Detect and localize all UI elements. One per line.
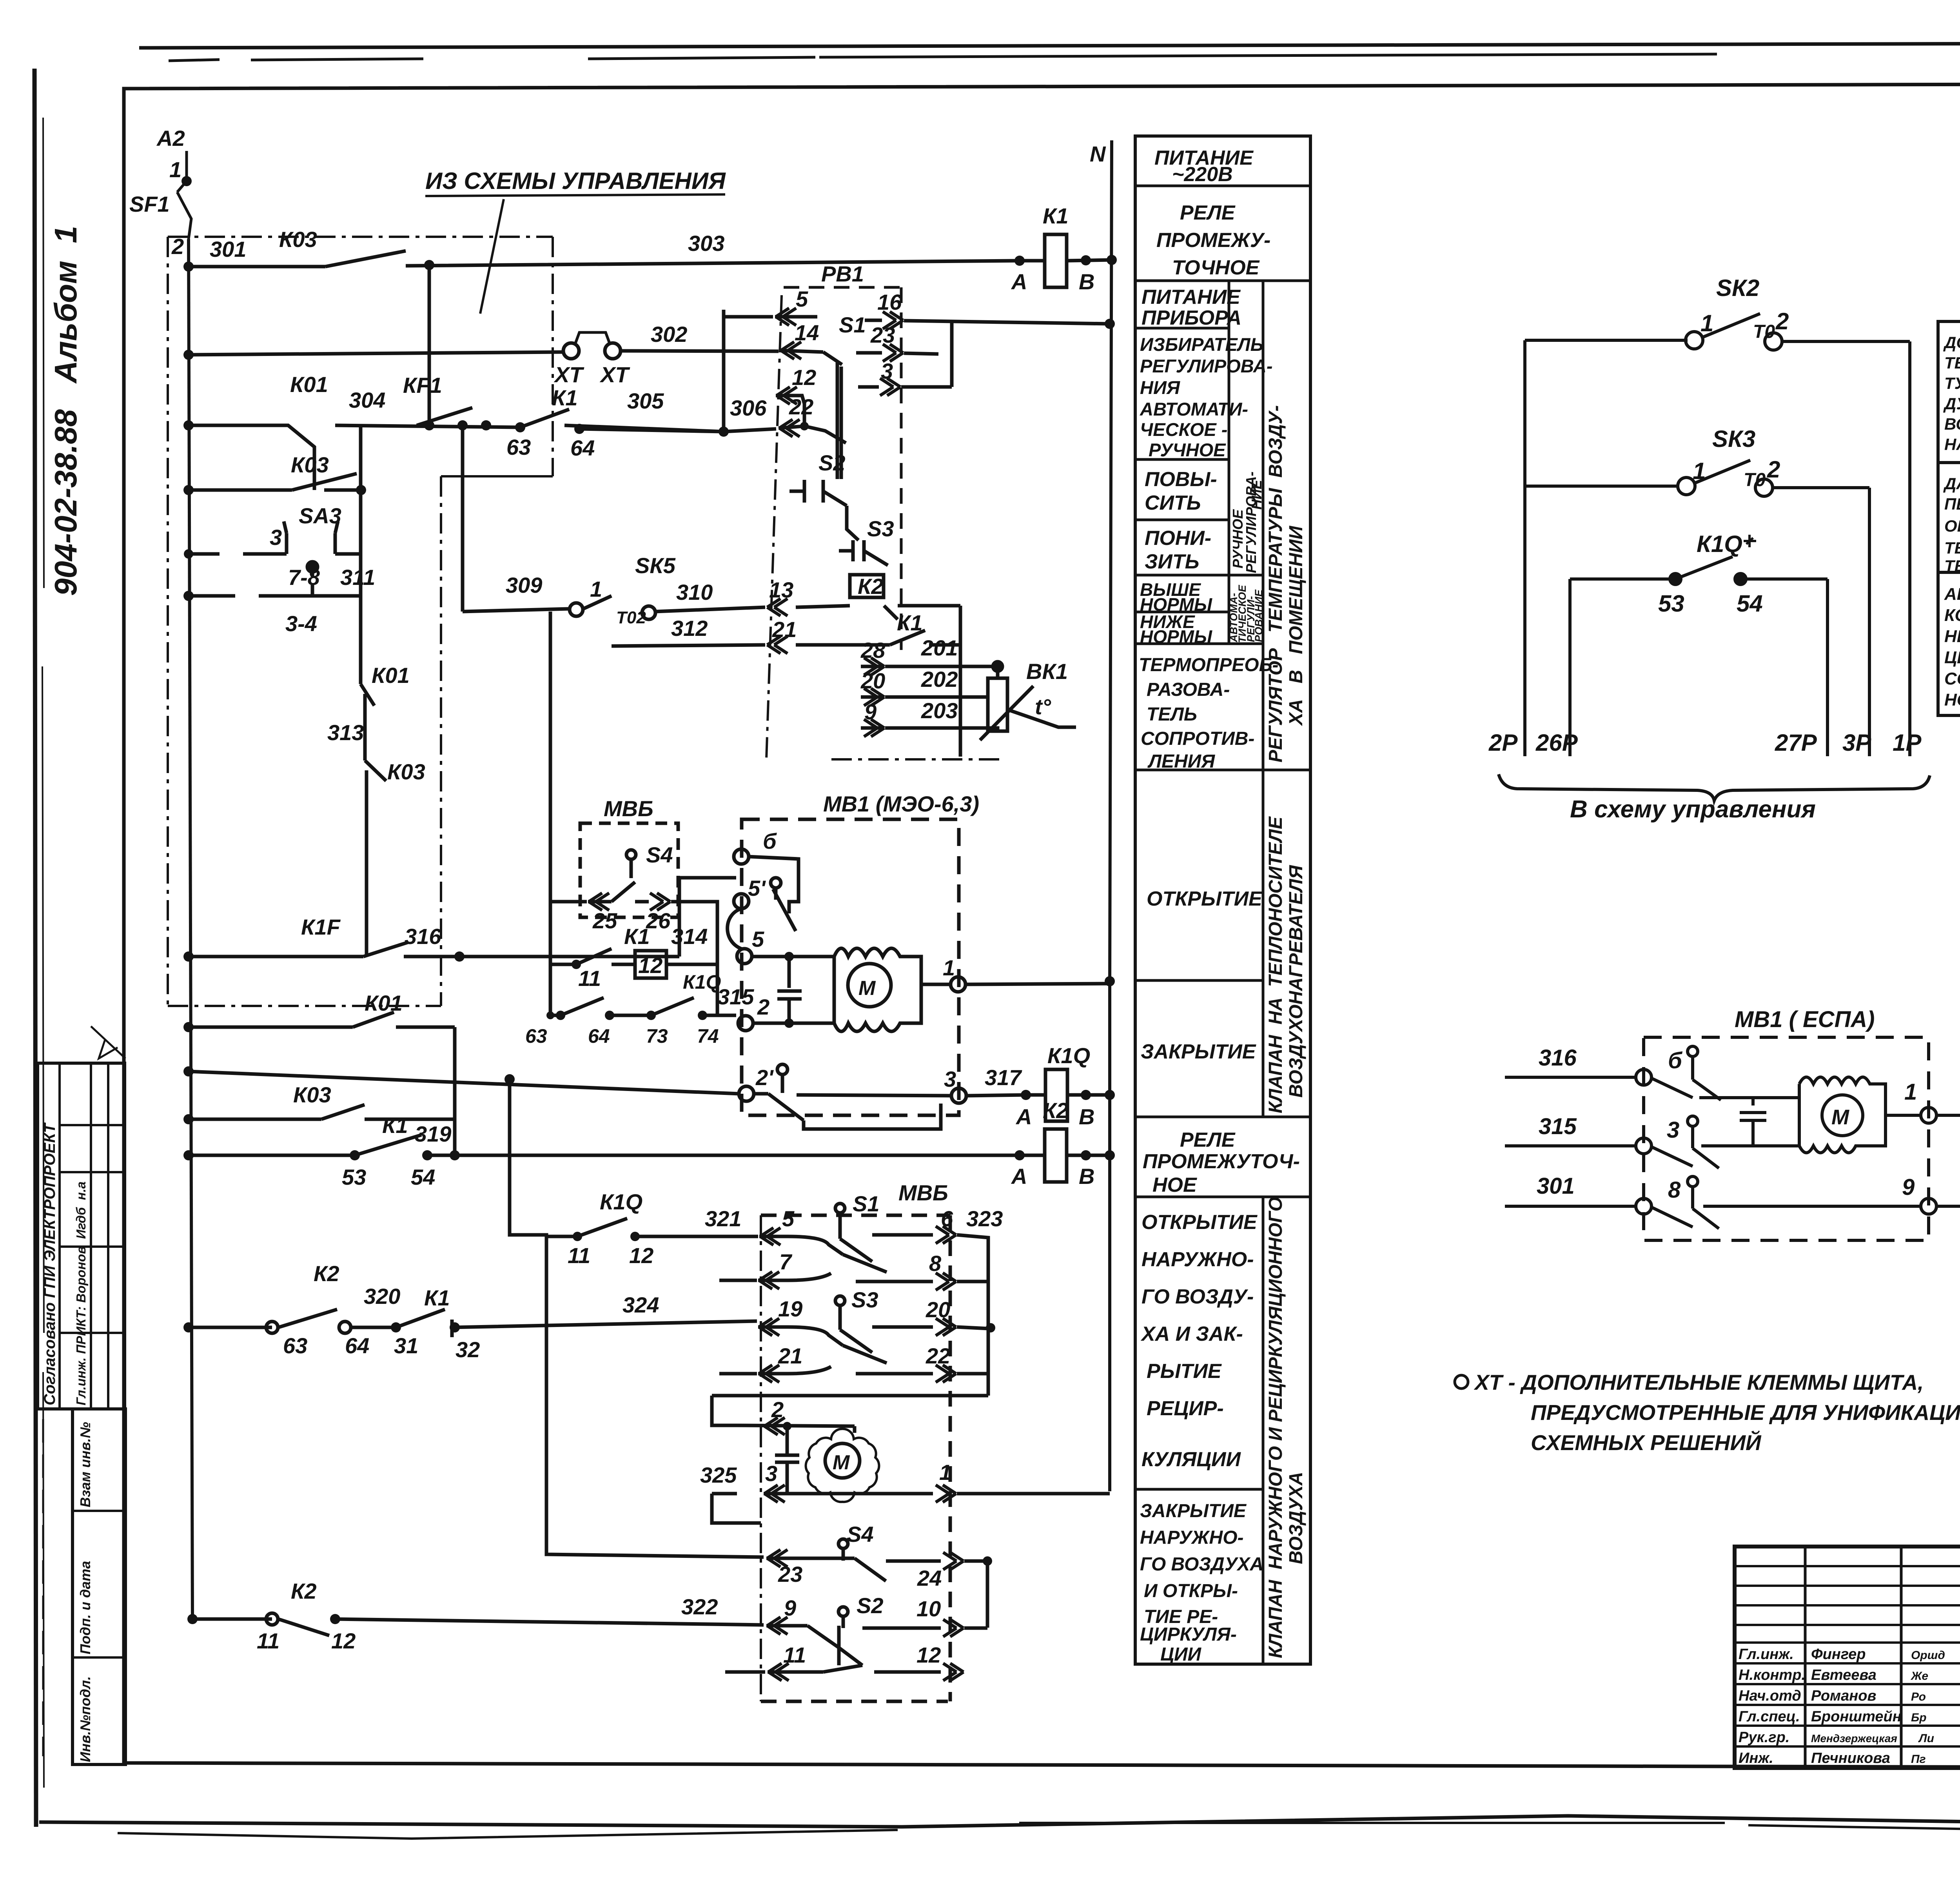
svg-text:ОБРАТНОГО: ОБРАТНОГО — [1944, 517, 1960, 535]
svg-text:10: 10 — [916, 1596, 941, 1621]
svg-text:3: 3 — [765, 1461, 777, 1486]
svg-text:К01: К01 — [365, 991, 403, 1015]
svg-text:6: 6 — [941, 1206, 953, 1231]
svg-text:ТЕЛЯ: ТЕЛЯ — [1944, 557, 1960, 575]
svg-text:201: 201 — [921, 635, 958, 660]
svg-text:3Р: 3Р — [1842, 730, 1871, 756]
svg-text:32: 32 — [456, 1337, 480, 1362]
svg-text:9: 9 — [1902, 1174, 1915, 1200]
svg-text:ЧЕСКОЕ -: ЧЕСКОЕ - — [1140, 419, 1227, 440]
svg-text:8: 8 — [1668, 1177, 1681, 1203]
svg-text:3: 3 — [881, 359, 893, 383]
svg-text:5: 5 — [752, 927, 764, 951]
svg-text:Романов: Романов — [1811, 1688, 1876, 1704]
svg-text:11: 11 — [257, 1628, 279, 1653]
svg-text:301: 301 — [210, 237, 246, 261]
svg-text:315: 315 — [717, 984, 754, 1009]
svg-text:ХТ - ДОПОЛНИТЕЛЬНЫЕ КЛЕММЫ Щ: ХТ - ДОПОЛНИТЕЛЬНЫЕ КЛЕММЫ ЩИТА, — [1474, 1370, 1924, 1394]
svg-text:315: 315 — [1539, 1114, 1577, 1139]
svg-text:S1: S1 — [853, 1191, 880, 1216]
svg-text:НОЕ: НОЕ — [1152, 1174, 1197, 1196]
svg-text:1: 1 — [943, 955, 955, 980]
svg-text:22: 22 — [789, 394, 813, 419]
svg-text:A2: A2 — [156, 126, 185, 151]
svg-text:СХЕМНЫХ РЕШЕНИЙ: СХЕМНЫХ РЕШЕНИЙ — [1531, 1430, 1762, 1455]
svg-text:В: В — [1079, 1104, 1094, 1129]
svg-text:317: 317 — [985, 1065, 1022, 1090]
svg-text:322: 322 — [681, 1594, 718, 1619]
svg-text:ХА В ПОМЕЩЕНИИ: ХА В ПОМЕЩЕНИИ — [1286, 525, 1307, 726]
svg-text:53: 53 — [1658, 590, 1684, 617]
svg-text:ПРЕДУСМОТРЕННЫЕ ДЛЯ УНИФИКАЦ: ПРЕДУСМОТРЕННЫЕ ДЛЯ УНИФИКАЦИИ — [1531, 1400, 1960, 1425]
svg-text:Гл.инж.: Гл.инж. — [1739, 1646, 1794, 1663]
svg-text:НОСИТЕЛЯ: НОСИТЕЛЯ — [1944, 690, 1960, 710]
svg-text:ПЕРАТУРЫ: ПЕРАТУРЫ — [1944, 495, 1960, 513]
svg-text:К01: К01 — [290, 372, 328, 397]
svg-text:ХТ: ХТ — [599, 362, 630, 387]
svg-text:НИЯ: НИЯ — [1140, 377, 1181, 398]
svg-text:К1F: К1F — [301, 915, 341, 939]
svg-text:27Р: 27Р — [1775, 730, 1817, 756]
svg-text:Евтеева: Евтеева — [1811, 1667, 1877, 1683]
svg-text:3-4: 3-4 — [285, 611, 317, 636]
svg-text:324: 324 — [622, 1292, 659, 1317]
svg-text:Печникова: Печникова — [1811, 1750, 1890, 1766]
svg-text:24: 24 — [917, 1566, 942, 1590]
svg-text:23: 23 — [870, 323, 895, 347]
svg-text:ПРОМЕЖУ-: ПРОМЕЖУ- — [1156, 229, 1270, 252]
svg-text:19: 19 — [778, 1296, 802, 1321]
svg-text:5': 5' — [748, 876, 766, 900]
svg-text:К1: К1 — [424, 1285, 450, 1310]
svg-text:ТЕМПЕРА-: ТЕМПЕРА- — [1944, 354, 1960, 372]
svg-text:К1Q: К1Q — [1047, 1043, 1090, 1068]
svg-text:8: 8 — [929, 1251, 942, 1276]
svg-text:1: 1 — [1700, 310, 1713, 336]
svg-text:НИЕ: НИЕ — [1249, 479, 1265, 510]
svg-text:НАГРЕВАТЕЛ.: НАГРЕВАТЕЛ. — [1944, 435, 1960, 454]
svg-text:ПОВЫ-: ПОВЫ- — [1145, 468, 1217, 491]
svg-text:2: 2 — [771, 1397, 784, 1422]
svg-text:2': 2' — [755, 1065, 774, 1090]
svg-text:ЗИТЬ: ЗИТЬ — [1145, 550, 1199, 573]
svg-text:РЫТИЕ: РЫТИЕ — [1147, 1360, 1222, 1383]
svg-text:М: М — [833, 1451, 850, 1474]
svg-text:КЛАПАН НАРУЖНОГО И РЕЦИРКУЛЯЦ: КЛАПАН НАРУЖНОГО И РЕЦИРКУЛЯЦИОННОГО — [1265, 1197, 1286, 1658]
svg-text:К1: К1 — [624, 924, 650, 949]
svg-text:ЦИРКУЛЯ-: ЦИРКУЛЯ- — [1140, 1624, 1237, 1645]
svg-text:К1Q: К1Q — [600, 1189, 642, 1214]
svg-text:~220В: ~220В — [1172, 163, 1233, 186]
svg-text:К03: К03 — [279, 227, 317, 252]
svg-text:SК2: SК2 — [1716, 275, 1759, 301]
svg-text:ВОЗДУХО-: ВОЗДУХО- — [1944, 415, 1960, 433]
svg-text:26Р: 26Р — [1535, 730, 1578, 756]
svg-text:305: 305 — [627, 388, 664, 413]
svg-text:РЕГУЛИРОВА-: РЕГУЛИРОВА- — [1140, 356, 1273, 376]
svg-text:64: 64 — [345, 1333, 369, 1358]
svg-text:63: 63 — [506, 435, 531, 459]
svg-text:РАЗОВА-: РАЗОВА- — [1147, 679, 1230, 700]
svg-text:Же: Же — [1910, 1670, 1928, 1683]
svg-text:ТЕПЛОНОСИ-: ТЕПЛОНОСИ- — [1944, 539, 1960, 557]
svg-text:S4: S4 — [847, 1522, 874, 1547]
svg-text:ИЗБИРАТЕЛЬ: ИЗБИРАТЕЛЬ — [1140, 334, 1263, 355]
svg-text:НИЕ ЦИРКУЛЯ-: НИЕ ЦИРКУЛЯ- — [1944, 627, 1960, 646]
svg-text:НАРУЖНО-: НАРУЖНО- — [1140, 1527, 1244, 1548]
svg-text:МВ1 (МЭО-6,3): МВ1 (МЭО-6,3) — [823, 791, 979, 816]
svg-text:5: 5 — [796, 287, 808, 311]
svg-text:12: 12 — [792, 365, 816, 390]
svg-text:Т0: Т0 — [1744, 470, 1766, 490]
svg-text:Мендзержецкая: Мендзержецкая — [1811, 1732, 1897, 1744]
svg-text:ВК1: ВК1 — [1026, 659, 1068, 684]
svg-text:б: б — [763, 829, 777, 853]
svg-text:Пг: Пг — [1911, 1753, 1926, 1766]
svg-text:ПРОМЕЖУТОЧ-: ПРОМЕЖУТОЧ- — [1143, 1150, 1300, 1173]
svg-text:12: 12 — [916, 1643, 941, 1667]
svg-text:К01: К01 — [372, 663, 410, 688]
svg-text:ДАТЧИК ТЕМ-: ДАТЧИК ТЕМ- — [1943, 474, 1960, 493]
svg-text:К2: К2 — [314, 1261, 339, 1286]
svg-text:321: 321 — [705, 1206, 741, 1231]
svg-text:306: 306 — [730, 396, 767, 420]
svg-text:РЕГУЛЯТОР ТЕМПЕРАТУРЫ ВОЗДУ: РЕГУЛЯТОР ТЕМПЕРАТУРЫ ВОЗДУ- — [1265, 405, 1286, 762]
svg-text:ГО ВОЗДУ-: ГО ВОЗДУ- — [1142, 1285, 1254, 1308]
svg-text:ГО ВОЗДУХА: ГО ВОЗДУХА — [1140, 1554, 1263, 1575]
svg-text:СОСА ТЕПЛО-: СОСА ТЕПЛО- — [1944, 669, 1960, 688]
svg-text:б: б — [1668, 1048, 1683, 1073]
svg-text:20: 20 — [926, 1297, 950, 1322]
svg-text:Ро: Ро — [1911, 1690, 1926, 1703]
svg-text:К2: К2 — [1043, 1098, 1069, 1123]
svg-text:Согласовано ГПИ ЭЛЕКТРОПРОЕКТ: Согласовано ГПИ ЭЛЕКТРОПРОЕКТ — [41, 1122, 58, 1405]
svg-text:313: 313 — [327, 720, 364, 745]
svg-text:ОТКРЫТИЕ: ОТКРЫТИЕ — [1147, 888, 1263, 910]
svg-text:301: 301 — [1537, 1173, 1575, 1199]
svg-text:2: 2 — [1767, 456, 1780, 483]
svg-text:12: 12 — [638, 953, 662, 978]
svg-text:ПИТАНИЕ: ПИТАНИЕ — [1142, 286, 1241, 309]
svg-text:S3: S3 — [851, 1287, 878, 1312]
svg-text:А: А — [1011, 1164, 1027, 1189]
svg-text:302: 302 — [651, 322, 687, 347]
svg-text:1: 1 — [939, 1460, 951, 1485]
svg-text:54: 54 — [411, 1165, 435, 1189]
svg-text:Н.контр.: Н.контр. — [1739, 1667, 1806, 1683]
svg-text:К1: К1 — [1043, 203, 1069, 228]
svg-text:МВБ: МВБ — [898, 1180, 948, 1205]
svg-text:А: А — [1011, 269, 1027, 294]
svg-text:7-8: 7-8 — [288, 565, 320, 590]
svg-text:ВОЗДУХА: ВОЗДУХА — [1286, 1472, 1307, 1565]
svg-text:309: 309 — [506, 573, 542, 597]
svg-text:ЗАКРЫТИЕ: ЗАКРЫТИЕ — [1141, 1040, 1256, 1063]
svg-text:3: 3 — [944, 1067, 956, 1091]
svg-text:S4: S4 — [646, 842, 673, 867]
svg-text:М: М — [858, 977, 876, 1000]
svg-text:2: 2 — [171, 234, 184, 259]
svg-text:К03: К03 — [387, 759, 425, 784]
svg-text:5: 5 — [782, 1206, 795, 1231]
svg-text:К1: К1 — [552, 385, 578, 410]
svg-text:21: 21 — [778, 1343, 802, 1368]
svg-text:SК3: SК3 — [1712, 426, 1755, 452]
svg-text:1Р: 1Р — [1893, 730, 1922, 756]
svg-text:SК5: SК5 — [635, 553, 676, 578]
svg-text:КОЕ ВКЛЮЧЕ-: КОЕ ВКЛЮЧЕ- — [1944, 606, 1960, 625]
svg-text:АВТОМАТИ-: АВТОМАТИ- — [1140, 399, 1248, 419]
svg-text:3: 3 — [1667, 1117, 1679, 1143]
svg-text:РВ1: РВ1 — [821, 261, 864, 286]
svg-text:ЗАКРЫТИЕ: ЗАКРЫТИЕ — [1140, 1501, 1247, 1521]
svg-text:КF1: КF1 — [403, 373, 442, 398]
svg-text:К2: К2 — [858, 574, 884, 599]
svg-text:54: 54 — [1737, 590, 1763, 617]
svg-text:Т02: Т02 — [616, 608, 646, 627]
svg-text:1: 1 — [169, 157, 181, 182]
svg-text:СИТЬ: СИТЬ — [1145, 492, 1201, 514]
svg-text:АВТОМАТИЧЕС-: АВТОМАТИЧЕС- — [1944, 585, 1960, 604]
svg-text:16: 16 — [877, 290, 902, 314]
svg-text:11: 11 — [568, 1243, 590, 1268]
svg-text:20: 20 — [860, 668, 885, 693]
svg-text:63: 63 — [283, 1333, 307, 1358]
svg-text:14: 14 — [795, 320, 819, 345]
svg-text:РОВАНИЕ: РОВАНИЕ — [1253, 589, 1265, 642]
svg-text:СОПРОТИВ-: СОПРОТИВ- — [1141, 728, 1254, 749]
svg-text:1: 1 — [1693, 458, 1706, 484]
svg-text:7: 7 — [779, 1249, 793, 1274]
svg-text:ПРИБОРА: ПРИБОРА — [1142, 307, 1241, 329]
svg-text:SA3: SA3 — [299, 503, 341, 528]
svg-text:11: 11 — [783, 1643, 806, 1667]
svg-text:А: А — [1015, 1104, 1032, 1129]
svg-text:В: В — [1079, 269, 1094, 294]
svg-text:13: 13 — [769, 577, 793, 602]
svg-text:23: 23 — [778, 1562, 802, 1587]
svg-text:312: 312 — [671, 616, 708, 641]
svg-text:323: 323 — [966, 1206, 1003, 1231]
svg-text:ЦИОННОГО НА-: ЦИОННОГО НА- — [1944, 648, 1960, 667]
svg-text:N: N — [1090, 142, 1106, 166]
svg-text:МВ1 ( ЕСПА): МВ1 ( ЕСПА) — [1735, 1007, 1875, 1032]
svg-text:1: 1 — [590, 577, 602, 601]
svg-text:310: 310 — [676, 580, 713, 604]
svg-text:ТУРЫ ВОЗ-: ТУРЫ ВОЗ- — [1944, 374, 1960, 392]
svg-text:Бронштейн: Бронштейн — [1811, 1708, 1902, 1725]
svg-text:НОРМЫ: НОРМЫ — [1140, 626, 1212, 647]
svg-text:9: 9 — [784, 1596, 796, 1620]
svg-text:ТОЧНОЕ: ТОЧНОЕ — [1172, 256, 1260, 279]
svg-text:ПОНИ-: ПОНИ- — [1145, 527, 1211, 550]
svg-text:Инж.: Инж. — [1739, 1750, 1773, 1766]
svg-text:314: 314 — [671, 924, 708, 949]
svg-text:ТЕЛЬ: ТЕЛЬ — [1147, 704, 1197, 725]
svg-text:М: М — [1831, 1106, 1849, 1129]
svg-text:Рук.гр.: Рук.гр. — [1739, 1729, 1789, 1746]
svg-text:К1Q: К1Q — [683, 971, 721, 993]
svg-text:И ОТКРЫ-: И ОТКРЫ- — [1144, 1581, 1238, 1601]
svg-text:ДУХА ПЕРЕД: ДУХА ПЕРЕД — [1943, 394, 1960, 413]
svg-text:320: 320 — [364, 1284, 400, 1309]
svg-text:ЛЕНИЯ: ЛЕНИЯ — [1147, 751, 1215, 772]
svg-text:Инв.№подл.: Инв.№подл. — [77, 1676, 93, 1762]
svg-text:Нач.отд: Нач.отд — [1739, 1688, 1801, 1704]
svg-text:ВОЗДУХОНАГРЕВАТЕЛЯ: ВОЗДУХОНАГРЕВАТЕЛЯ — [1286, 865, 1307, 1098]
svg-text:2Р: 2Р — [1488, 730, 1518, 756]
svg-text:Гл.спец.: Гл.спец. — [1739, 1708, 1800, 1725]
svg-text:К1: К1 — [382, 1113, 408, 1138]
svg-text:31: 31 — [394, 1333, 418, 1358]
svg-text:S1: S1 — [839, 312, 866, 337]
svg-text:3: 3 — [270, 525, 282, 550]
svg-text:2: 2 — [757, 995, 769, 1019]
svg-text:ИЗ СХЕМЫ УПРАВЛЕНИЯ: ИЗ СХЕМЫ УПРАВЛЕНИЯ — [425, 168, 726, 194]
svg-text:73: 73 — [646, 1025, 668, 1047]
svg-text:ТЕРМОПРЕОБ-: ТЕРМОПРЕОБ- — [1139, 655, 1279, 675]
svg-text:ОТКРЫТИЕ: ОТКРЫТИЕ — [1142, 1211, 1258, 1234]
svg-text:311: 311 — [340, 565, 375, 590]
svg-text:25: 25 — [592, 908, 617, 933]
svg-text:11: 11 — [578, 966, 601, 991]
svg-text:МВБ: МВБ — [604, 796, 653, 821]
svg-text:12: 12 — [331, 1628, 356, 1653]
svg-text:63: 63 — [525, 1025, 547, 1047]
svg-text:Бр: Бр — [1911, 1711, 1927, 1724]
svg-text:Оршд: Оршд — [1911, 1649, 1945, 1662]
svg-text:К1Q: К1Q — [1697, 531, 1742, 557]
svg-text:ЦИИ: ЦИИ — [1160, 1644, 1202, 1665]
svg-text:ХТ: ХТ — [554, 362, 584, 387]
svg-text:ХА И ЗАК-: ХА И ЗАК- — [1140, 1323, 1243, 1345]
svg-text:ДОТЧИК: ДОТЧИК — [1943, 333, 1960, 352]
svg-text:202: 202 — [921, 667, 958, 692]
svg-text:SF1: SF1 — [129, 192, 170, 216]
svg-text:КУЛЯЦИИ: КУЛЯЦИИ — [1142, 1448, 1241, 1471]
svg-text:Т0: Т0 — [1753, 321, 1775, 342]
svg-text:203: 203 — [921, 698, 958, 723]
svg-text:74: 74 — [697, 1025, 719, 1047]
svg-text:1: 1 — [1904, 1079, 1917, 1105]
svg-text:К03: К03 — [291, 452, 329, 477]
svg-text:КЛАПАН НА ТЕПЛОНОСИТЕЛЕ: КЛАПАН НА ТЕПЛОНОСИТЕЛЕ — [1265, 816, 1286, 1113]
svg-text:РУЧНОЕ: РУЧНОЕ — [1149, 439, 1226, 460]
svg-text:РЕЛЕ: РЕЛЕ — [1180, 201, 1236, 224]
svg-text:64: 64 — [570, 436, 595, 460]
svg-text:Фингер: Фингер — [1811, 1646, 1866, 1663]
svg-text:53: 53 — [342, 1165, 366, 1189]
svg-text:2: 2 — [1775, 308, 1789, 334]
svg-text:22: 22 — [926, 1343, 950, 1368]
svg-text:904-02-38.88 Альбом 1: 904-02-38.88 Альбом 1 — [48, 226, 83, 596]
svg-text:Гл.инж. ПРИКТ: Воронов Игдб: Гл.инж. ПРИКТ: Воронов Игдб н.а — [74, 1182, 88, 1405]
svg-text:325: 325 — [700, 1463, 737, 1487]
svg-text:316: 316 — [1539, 1045, 1577, 1071]
svg-text:К2: К2 — [291, 1579, 317, 1603]
svg-text:Взам инв.№: Взам инв.№ — [77, 1422, 93, 1507]
svg-text:РЕЛЕ: РЕЛЕ — [1180, 1129, 1236, 1151]
svg-text:9: 9 — [864, 699, 877, 724]
svg-text:28: 28 — [860, 638, 886, 663]
svg-text:12: 12 — [629, 1243, 653, 1268]
svg-text:304: 304 — [349, 388, 385, 412]
svg-text:В схему управления: В схему управления — [1570, 796, 1816, 823]
svg-text:РЕЦИР-: РЕЦИР- — [1147, 1397, 1224, 1420]
svg-text:В: В — [1079, 1164, 1094, 1189]
svg-text:Подп. и дата: Подп. и дата — [77, 1561, 93, 1654]
svg-text:К03: К03 — [293, 1082, 331, 1107]
svg-text:319: 319 — [415, 1122, 451, 1146]
svg-text:64: 64 — [588, 1025, 610, 1047]
svg-text:К1: К1 — [897, 610, 923, 635]
svg-text:303: 303 — [688, 231, 724, 256]
svg-text:НАРУЖНО-: НАРУЖНО- — [1142, 1248, 1254, 1271]
svg-text:S3: S3 — [867, 516, 894, 541]
svg-text:Ли: Ли — [1918, 1732, 1934, 1745]
svg-text:316: 316 — [405, 924, 441, 949]
svg-text:S2: S2 — [857, 1593, 884, 1618]
svg-text:S2: S2 — [818, 450, 846, 475]
svg-text:t°: t° — [1035, 694, 1051, 719]
